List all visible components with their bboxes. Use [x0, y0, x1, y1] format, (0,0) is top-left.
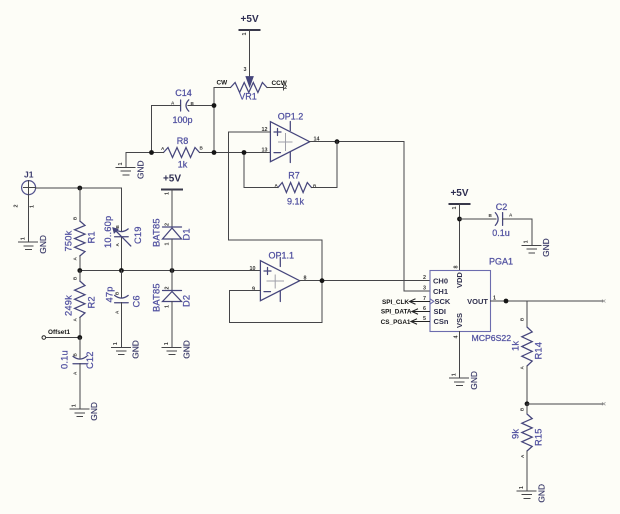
svg-text:2: 2 — [14, 205, 20, 208]
svg-text:CH0: CH0 — [433, 277, 448, 286]
resistor R1 750k — [64, 188, 97, 271]
svg-text:C12: C12 — [85, 351, 95, 369]
svg-text:GND: GND — [536, 484, 546, 503]
node R2/C12/Offset1 — [77, 335, 82, 340]
connector J1 — [14, 170, 36, 209]
svg-text:3: 3 — [423, 286, 426, 292]
node +5V/C2 — [457, 217, 462, 222]
svg-text:2: 2 — [165, 287, 171, 290]
svg-text:750k: 750k — [64, 230, 74, 251]
svg-text:VOUT: VOUT — [467, 297, 488, 306]
node C14/VR1 — [212, 103, 217, 108]
IC PGA1 MCP6S22 — [423, 257, 513, 344]
svg-text:13: 13 — [262, 147, 268, 153]
svg-text:9k: 9k — [511, 429, 521, 439]
wire OP1.2 output — [310, 142, 430, 291]
ground (R15) — [517, 484, 546, 503]
wire VOUT output — [491, 300, 606, 303]
svg-text:1: 1 — [72, 404, 78, 407]
svg-text:1: 1 — [113, 342, 119, 345]
wire OP1.1 output to PGA CH0 — [300, 280, 430, 282]
capacitor C12 0.1u — [60, 338, 96, 410]
ground (J1) — [19, 235, 48, 254]
svg-text:OP1.1: OP1.1 — [269, 250, 295, 260]
wire J1 to C19 — [36, 187, 122, 189]
svg-text:CSn: CSn — [434, 317, 449, 326]
svg-text:2: 2 — [284, 85, 287, 91]
ground (R8 left) — [116, 160, 145, 179]
node R14/R15 — [525, 401, 530, 406]
svg-text:9: 9 — [252, 286, 255, 292]
node VOUT — [504, 299, 509, 304]
svg-text:C6: C6 — [132, 295, 142, 307]
node bus/D1/D2 — [170, 268, 175, 273]
op-amp OP1.1 — [250, 250, 307, 301]
svg-text:+5V: +5V — [163, 174, 181, 185]
resistor R7 9.1k — [275, 170, 318, 206]
svg-text:1: 1 — [242, 33, 248, 36]
wire VR1 CCW terminal — [267, 85, 284, 90]
wire Offset1 to R2/C12 — [46, 337, 80, 339]
svg-text:CH1: CH1 — [433, 287, 448, 296]
svg-text:OP1.2: OP1.2 — [278, 111, 304, 121]
svg-text:R7: R7 — [288, 170, 300, 180]
svg-text:Offset1: Offset1 — [48, 329, 70, 336]
svg-text:R8: R8 — [177, 136, 189, 146]
svg-text:GND: GND — [89, 402, 99, 421]
+5V supply (D1) — [161, 174, 183, 196]
svg-text:R1: R1 — [87, 231, 97, 243]
svg-text:SPI_CLK: SPI_CLK — [382, 299, 409, 306]
wire D1 to bus — [171, 239, 173, 271]
svg-text:10..60p: 10..60p — [103, 216, 113, 248]
svg-text:MCP6S22: MCP6S22 — [471, 333, 511, 343]
trimmer capacitor C19 10..60p — [103, 188, 143, 271]
node pin13/R7 — [242, 150, 247, 155]
svg-text:1: 1 — [165, 192, 171, 195]
svg-text:1: 1 — [165, 243, 171, 246]
resistor R14 1k — [511, 301, 544, 404]
wire bus to D2 — [171, 271, 173, 291]
ground (VSS) — [450, 371, 479, 390]
svg-text:R2: R2 — [87, 296, 97, 308]
wire +5V to D1 — [171, 190, 173, 228]
node bus/C19/C6 — [119, 268, 124, 273]
svg-text:9.1k: 9.1k — [287, 197, 305, 207]
node R8/C14 — [149, 150, 154, 155]
svg-text:GND: GND — [135, 160, 145, 179]
svg-text:D1: D1 — [182, 228, 192, 240]
ground (C2) — [522, 238, 551, 257]
node OP1.2 out / R7 — [335, 139, 340, 144]
wire OP1.2 pin12 to OP1.1 output — [229, 132, 323, 281]
svg-text:+5V: +5V — [450, 188, 468, 199]
wire D2 to ground — [171, 302, 173, 348]
svg-text:1: 1 — [519, 486, 525, 489]
svg-text:1k: 1k — [178, 159, 188, 169]
svg-text:C2: C2 — [496, 202, 508, 212]
svg-text:1k: 1k — [511, 341, 521, 351]
svg-text:10: 10 — [250, 266, 256, 272]
net CS_PGA1 — [381, 319, 430, 326]
diode D1 BAT85 — [152, 218, 192, 247]
wire VSS to ground — [459, 332, 461, 379]
wire VR1 CW terminal down — [214, 88, 231, 153]
svg-text:1: 1 — [165, 305, 171, 308]
wire R8 right to OP1.2 pin13 — [200, 152, 271, 154]
svg-text:8: 8 — [454, 266, 460, 269]
wire R7 right to output node — [312, 142, 338, 188]
svg-text:VR1: VR1 — [239, 92, 257, 102]
wire divider output — [527, 402, 606, 405]
svg-text:1: 1 — [118, 163, 124, 166]
svg-text:1: 1 — [451, 373, 457, 376]
net SPI_CLK — [382, 299, 430, 306]
svg-text:0.1u: 0.1u — [60, 350, 70, 369]
svg-text:100p: 100p — [172, 115, 192, 125]
wire input bus — [80, 270, 261, 272]
+5V supply (PGA1) — [449, 188, 471, 210]
svg-text:J1: J1 — [24, 170, 34, 180]
net Offset1 — [42, 329, 70, 339]
+5V supply (VR1) — [239, 14, 261, 36]
resistor R15 9k — [511, 404, 544, 491]
svg-text:GND: GND — [38, 235, 48, 254]
wire +5V to VDD — [459, 204, 461, 271]
ground (C6) — [111, 340, 140, 359]
svg-text:+5V: +5V — [241, 14, 259, 25]
wire C2 right to ground — [503, 219, 532, 245]
svg-text:1: 1 — [452, 207, 458, 210]
svg-text:0.1u: 0.1u — [492, 228, 510, 238]
net SPI_DATA — [381, 309, 430, 316]
wire J1 shield to ground — [28, 195, 30, 243]
svg-text:3: 3 — [244, 67, 247, 73]
wire C14 right — [188, 105, 214, 107]
node J1/R1 — [77, 186, 82, 191]
node bus/R1/R2 — [77, 268, 82, 273]
svg-text:PGA1: PGA1 — [489, 257, 513, 267]
resistor R8 1k — [161, 136, 204, 170]
svg-text:SPI_DATA: SPI_DATA — [381, 309, 412, 316]
ground (C12) — [70, 402, 99, 421]
svg-text:1: 1 — [30, 205, 36, 208]
svg-text:1: 1 — [20, 237, 26, 240]
svg-text:VDD: VDD — [455, 272, 464, 288]
svg-text:C19: C19 — [133, 226, 143, 244]
wire OP1.1 pin9 feedback — [230, 281, 323, 323]
svg-text:1: 1 — [164, 342, 170, 345]
wire R8 left to GND branch — [126, 153, 164, 168]
wire R7 left to pin13 node — [244, 153, 278, 188]
svg-text:1: 1 — [524, 240, 530, 243]
svg-text:CS_PGA1: CS_PGA1 — [381, 319, 411, 326]
wire +5V to VR1 wiper — [249, 30, 251, 77]
node OP1.1 output — [320, 278, 325, 283]
svg-text:SCK: SCK — [435, 297, 451, 306]
svg-text:47p: 47p — [104, 286, 114, 302]
svg-text:GND: GND — [541, 238, 551, 257]
wire C14 left — [152, 106, 181, 153]
svg-text:SDI: SDI — [434, 307, 447, 316]
svg-text:2: 2 — [165, 223, 171, 226]
capacitor C6 47p — [104, 271, 141, 348]
svg-text:R15: R15 — [534, 428, 544, 446]
svg-text:CW: CW — [217, 80, 229, 87]
svg-text:R14: R14 — [534, 342, 544, 360]
svg-text:C14: C14 — [175, 88, 192, 98]
potentiometer VR1 — [217, 67, 288, 102]
svg-text:4: 4 — [454, 336, 460, 339]
svg-text:D2: D2 — [182, 295, 192, 307]
diode D2 BAT85 — [152, 283, 192, 312]
svg-text:GND: GND — [469, 371, 479, 390]
wire C2 left — [460, 218, 496, 220]
svg-text:VSS: VSS — [455, 313, 464, 328]
svg-text:GND: GND — [181, 340, 191, 359]
node R8/VR1 — [212, 150, 217, 155]
capacitor C2 0.1u — [489, 202, 514, 238]
resistor R2 249k — [64, 271, 97, 338]
ground (D2) — [162, 340, 191, 359]
svg-text:GND: GND — [131, 340, 141, 359]
op-amp OP1.2 — [262, 111, 320, 162]
svg-text:2: 2 — [423, 275, 426, 281]
svg-text:BAT85: BAT85 — [152, 283, 162, 312]
svg-text:249k: 249k — [64, 295, 74, 316]
svg-text:BAT85: BAT85 — [152, 218, 162, 247]
capacitor C14 100p — [171, 88, 195, 125]
